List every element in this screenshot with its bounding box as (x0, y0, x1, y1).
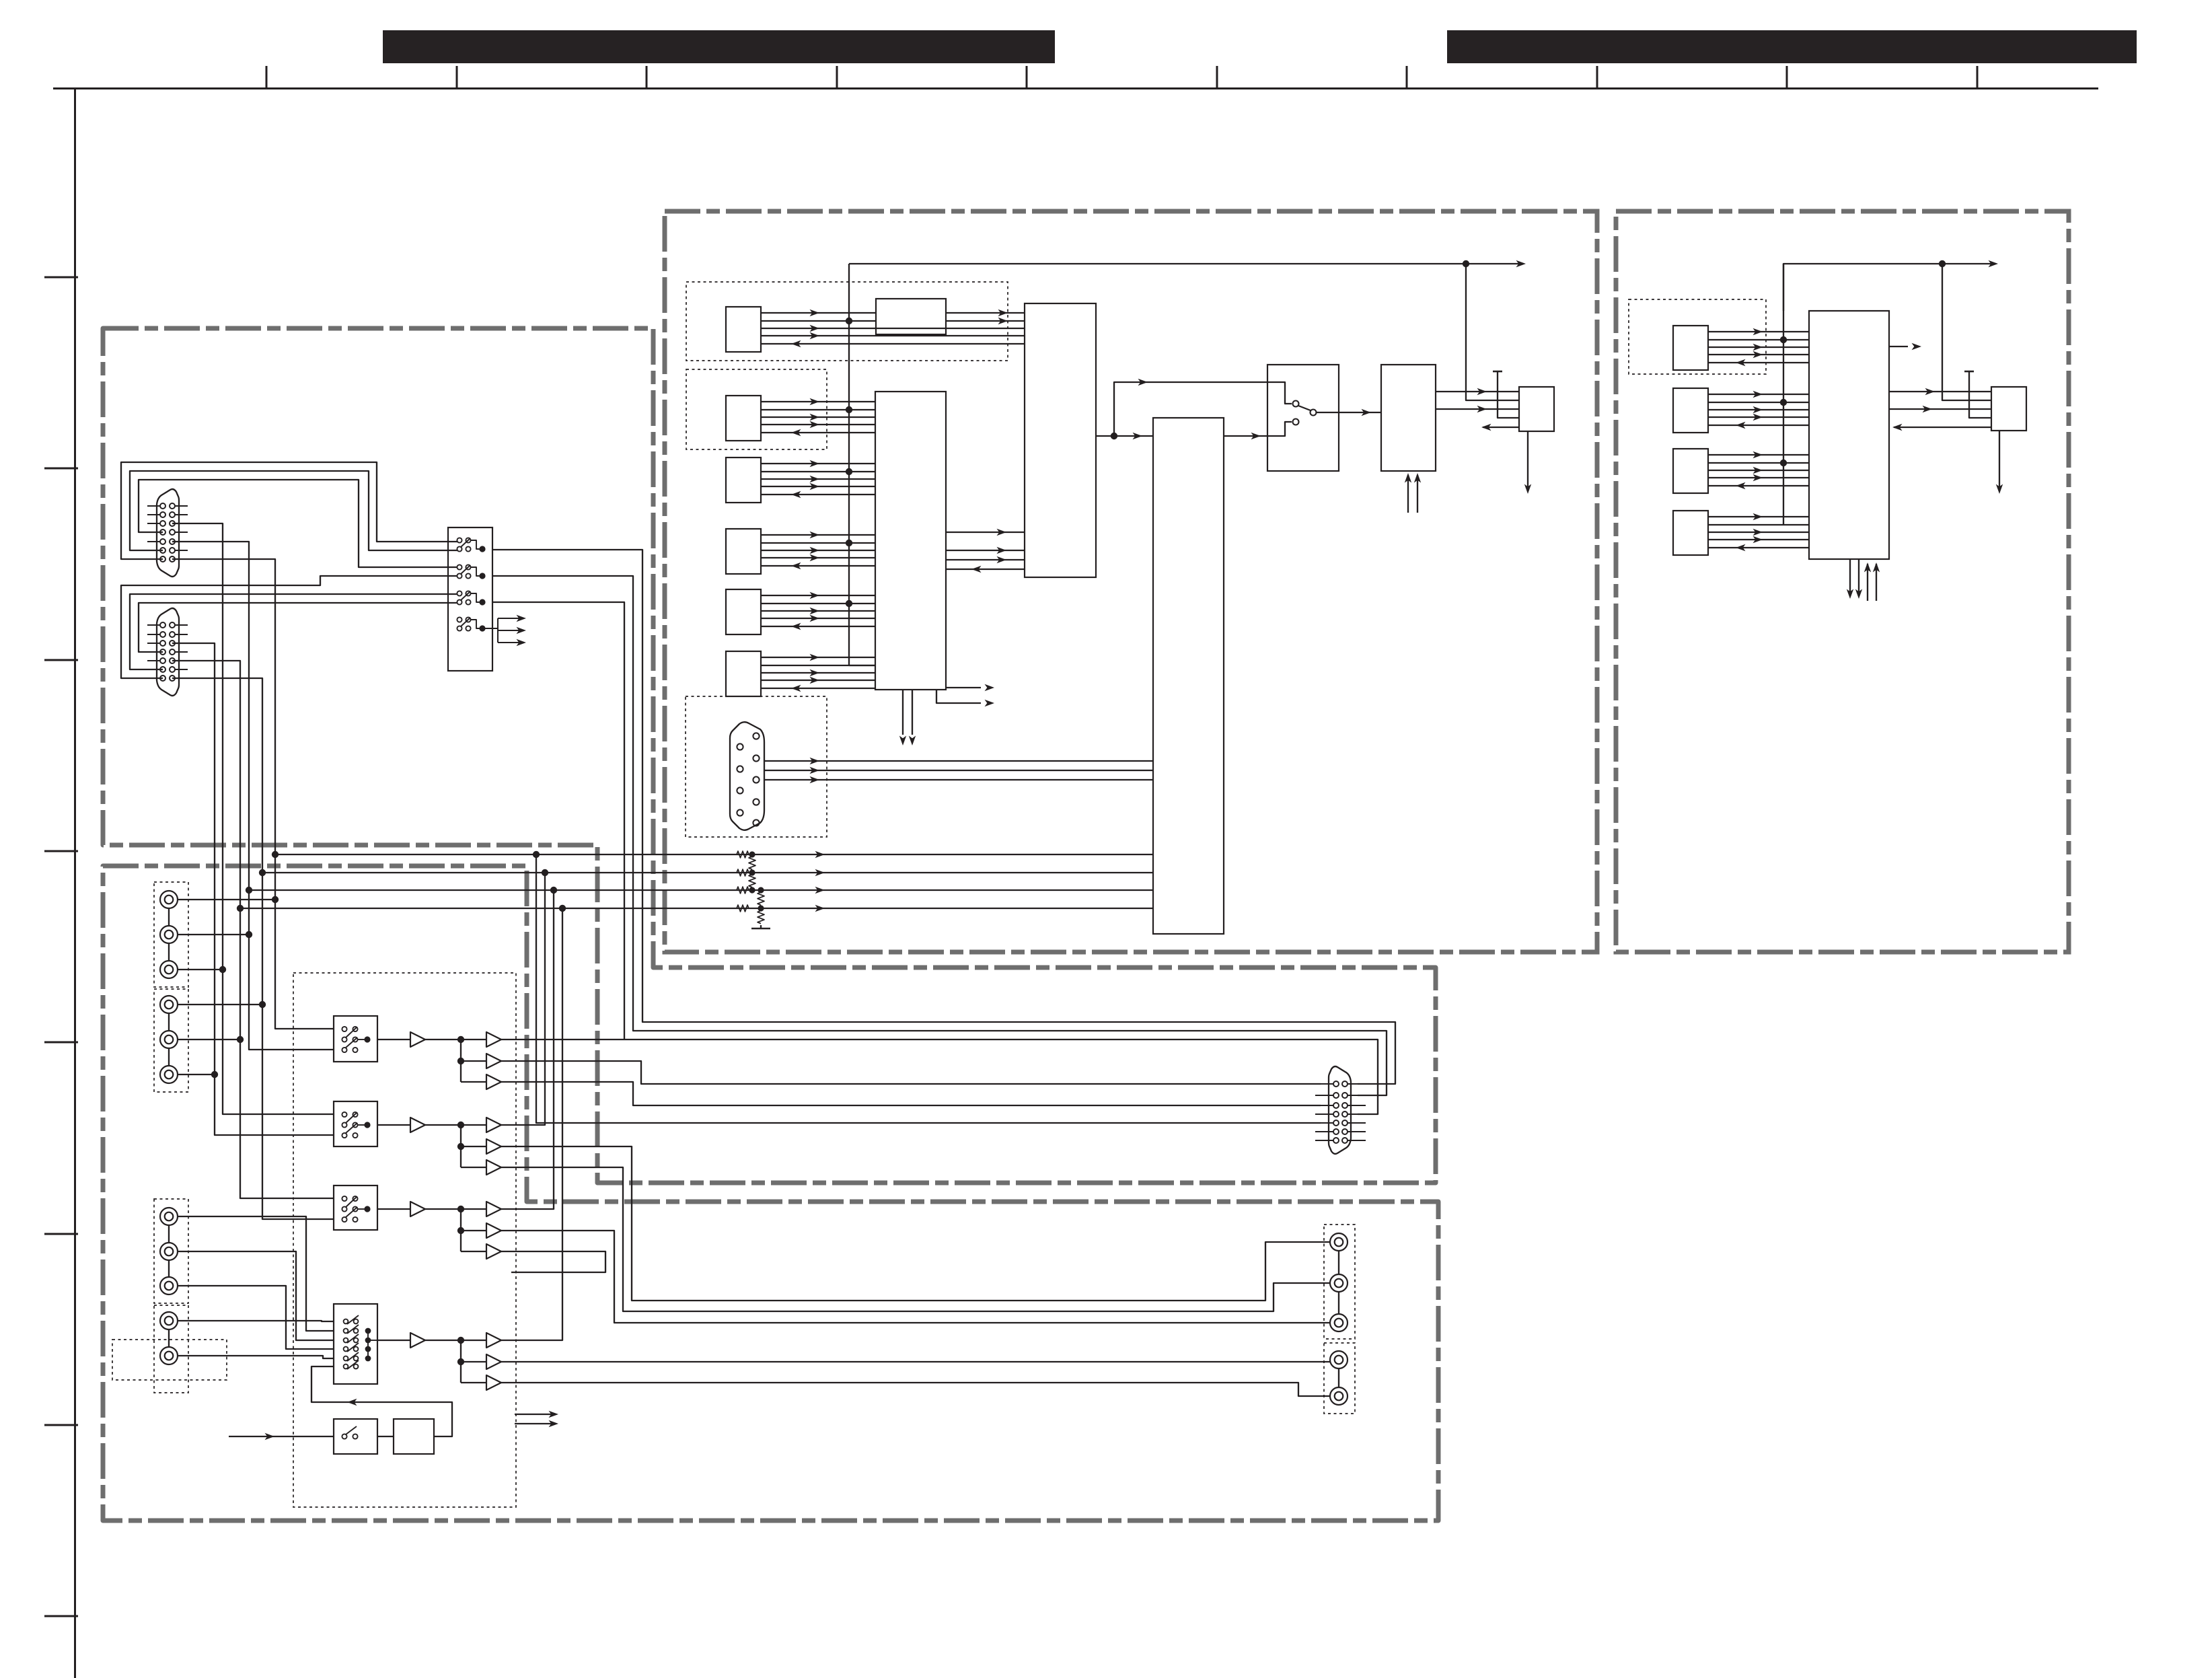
wire: CN1 pin5R down (172, 542, 334, 1050)
connector CN2 body (157, 608, 179, 696)
RCA jack J1 (160, 891, 178, 908)
switch S2 unit 3 (457, 591, 462, 595)
switch S2 unit 2 (457, 564, 462, 569)
switch S5 contacts (342, 1196, 346, 1201)
wire: S2 out1 to CN3 (492, 550, 1395, 1084)
wire: S3 out2 to CN3 pin1 (501, 1061, 1321, 1084)
left ruler line (74, 89, 76, 1678)
dotted group: switch/buffer block (293, 973, 516, 1507)
wire: U4 to J-A lower (1436, 408, 1519, 410)
RCA jack J2 (160, 926, 178, 943)
top ruler line (53, 87, 2098, 89)
input module box B4 (1673, 511, 1708, 555)
input module box A5 (726, 589, 761, 634)
ground (751, 928, 770, 930)
RCA jack JO4 (1330, 1351, 1348, 1369)
block frame: audio in/out section (dash-dot) (103, 866, 1438, 1521)
switch S2 unit 1 (457, 538, 462, 542)
wire: J5 feed (178, 1039, 240, 1040)
switch box S5 (334, 1185, 377, 1230)
switch S4 contacts (342, 1112, 346, 1117)
jack chain 3 (168, 1225, 170, 1243)
wires: input B1 to U5 (1708, 328, 1809, 366)
dotted group: output jacks 4-5 (1324, 1343, 1355, 1414)
dotted group: control connector (686, 696, 827, 837)
wire: S5 out3 (501, 1251, 605, 1272)
title bar (redacted) right (1447, 30, 2137, 63)
wire: S5 out1 up to rail3 (501, 890, 554, 1209)
wire: CN1 pin3R down (172, 523, 334, 1114)
wire: J11 to S6 (178, 1356, 334, 1358)
wire: mute feedback (311, 1366, 452, 1436)
switch S7 contacts (342, 1434, 346, 1438)
dotted group: input block 2 (686, 369, 827, 449)
wire: U1 to U3 composite (1096, 435, 1153, 437)
wire: CN2 pin6L (130, 594, 457, 669)
wire: S7 to mute (377, 1436, 394, 1437)
connector CN1 pins (160, 503, 165, 509)
resistor R3 (737, 887, 749, 893)
wire: S7 input (229, 1436, 334, 1437)
buffers after S6 (377, 1333, 501, 1390)
wire: CN2 pin7L loop (121, 576, 457, 678)
input module box B1 (1673, 326, 1708, 370)
input module box A6 (726, 651, 761, 696)
IC U2 (selector) (875, 392, 946, 690)
wire: bus to U2 (849, 665, 875, 666)
wires: input B4 to U5 (1708, 513, 1809, 551)
wire: J6 feed (178, 1074, 215, 1075)
connector CN1 body (157, 489, 179, 577)
switch S3 contacts (342, 1027, 346, 1031)
IC U3 (video encoder) (1153, 418, 1224, 934)
wire: J3 feed (178, 969, 223, 970)
RCA jack JO3 (1330, 1314, 1348, 1332)
wire: U3 out to S1 (1224, 422, 1292, 436)
wire: J-A down (1527, 431, 1528, 488)
wire: S4 out2 to JO1 (501, 1146, 1330, 1301)
wire: video rail 2 (262, 872, 1153, 873)
RCA jack J9 (160, 1277, 178, 1294)
wires: input B2 to U5 (1708, 391, 1809, 429)
connector CN-D9 body (730, 722, 764, 830)
connector CN3 stubs (1315, 1083, 1333, 1085)
jack chain 2 (168, 1013, 170, 1031)
wire: S3 out3 to CN3 pin3 (501, 1082, 1321, 1105)
connector CN1 stubs (147, 505, 160, 507)
wire: S4 out1 up to rail2 (501, 873, 545, 1125)
wire: feedback from top rail (1466, 264, 1519, 400)
wire: J-B return (1894, 427, 1991, 428)
dotted group: output jacks 1-3 (1324, 1225, 1355, 1339)
wire: CN1 pin7R down (172, 559, 334, 1029)
wire: J1 feed (178, 899, 275, 900)
IC U5 (1809, 311, 1889, 559)
block frame: main processing section (dash-dot) (665, 211, 1597, 952)
dotted group: jacks 4-6 (154, 989, 188, 1092)
wire: U5 status out (1889, 346, 1908, 347)
junction dots: rail branches (533, 851, 566, 912)
IC U1 (receiver) (1025, 303, 1096, 577)
wires: S2 unit4 outputs (482, 615, 526, 646)
buffers after S3 (377, 1032, 501, 1089)
dotted group: jacks 10-11 (154, 1305, 188, 1393)
IC U4 (driver) (1381, 365, 1436, 471)
wires: U2 outputs down (899, 690, 916, 745)
terminator T1 (1493, 371, 1502, 373)
connector CN-D9 pins (737, 733, 759, 826)
wire: J2 feed (178, 934, 249, 935)
input module box A2 (726, 396, 761, 441)
wires: U2 to U1 (946, 529, 1025, 573)
buffers after S5 (377, 1202, 501, 1259)
wire: video rail 3 (249, 889, 1153, 891)
wire: CN2 pin3R down (172, 643, 334, 1135)
wire: J4 feed (178, 1004, 262, 1005)
switch S6 contacts (344, 1315, 377, 1369)
wire: J-A return (1483, 427, 1519, 428)
block frame: video input/monitor section (dash-dot) (103, 328, 1436, 1183)
wire: S6 out1 up to rail4 (501, 908, 562, 1340)
switch unit box S1 (1267, 365, 1339, 471)
jack chain 4 (168, 1329, 170, 1347)
RCA jack J3 (160, 961, 178, 978)
wire: J-B down (1999, 431, 2000, 488)
wire: CN2 pin4L (139, 603, 457, 652)
wire: CN2 pin7R down (172, 678, 334, 1219)
wire: U5 to J-B lower (1889, 408, 1991, 410)
switch S2 unit 4 (457, 617, 462, 622)
switch box S7 (334, 1419, 377, 1454)
wire: U5 to J-B upper (1889, 391, 1991, 392)
dotted group: input block B1 (1629, 299, 1766, 374)
wire: rail1 branch to CN3 pin5 (536, 854, 1321, 1123)
connector CN2 pins (160, 622, 165, 628)
top ruler ticks (266, 66, 1977, 89)
wire: J7 to S6 (178, 1216, 334, 1331)
mute block (394, 1419, 434, 1454)
block frame: secondary processing section (dash-dot) (1616, 211, 2069, 952)
wires: U4 control up-arrows (1407, 475, 1409, 513)
wires: input A3 to U2 (761, 460, 875, 498)
connector CN3 body (1329, 1066, 1351, 1154)
jack chain 5 (1338, 1251, 1339, 1274)
resistor chain RA (749, 856, 755, 869)
wires: input A2 to U2 (761, 398, 875, 436)
switch box S4 (334, 1101, 377, 1146)
wire: rec out arrows (515, 1414, 553, 1415)
resistor R4 (737, 905, 749, 912)
wires: U5 bottom arrows (1847, 559, 1880, 601)
wire: video rail 1 (275, 854, 1153, 855)
wire: S4 out3 to JO2 (501, 1167, 1330, 1311)
dotted group: input block 1 (686, 282, 1008, 361)
RCA jack JO1 (1330, 1233, 1348, 1251)
wire: S6 out3 to JO5 (501, 1383, 1330, 1396)
input module box B2 (1673, 388, 1708, 433)
RCA jack JO2 (1330, 1274, 1348, 1292)
connector CN3 pins (1333, 1081, 1339, 1087)
wire: S1 to U4 (1317, 412, 1381, 413)
input module box A3 (726, 458, 761, 503)
switch box S6 (334, 1304, 377, 1384)
switch S1 contacts (1293, 401, 1299, 407)
dotted group: option slot (112, 1340, 227, 1380)
wire: S6 out2 to JO4 (501, 1361, 1330, 1362)
wire: U4 to J-A upper (1436, 391, 1519, 392)
wires: input A5 to U2 (761, 592, 875, 630)
interface box J-B (1991, 387, 2026, 431)
switch block S2 box (448, 527, 492, 671)
RCA jack JO5 (1330, 1387, 1348, 1405)
wire: S5 out2 to JO3 (501, 1231, 1330, 1323)
wire: S2 out2 to CN3 (492, 576, 1387, 1095)
input module box A4 (726, 529, 761, 574)
input module box B3 (1673, 449, 1708, 493)
RCA jack J7 (160, 1208, 178, 1225)
wires: input B3 to U5 (1708, 451, 1809, 489)
buffers after S4 (377, 1118, 501, 1175)
RCA jack J8 (160, 1243, 178, 1260)
dotted group: jacks 7-9 (154, 1199, 188, 1303)
RCA jack J11 (160, 1347, 178, 1364)
left ruler ticks (44, 277, 78, 1616)
wire: CN1 pin4L loop (139, 480, 457, 567)
wire: J10 to S6 (178, 1321, 334, 1321)
wires: CN-D9 to U3 (764, 758, 1153, 783)
RCA jack J10 (160, 1312, 178, 1329)
wires: input A6 to U2 (761, 654, 875, 692)
terminator T2 (1964, 371, 1974, 373)
dotted group: jacks 1-3 (154, 882, 188, 987)
resistor R1 (737, 851, 749, 858)
RCA jack J4 (160, 996, 178, 1013)
interface box J-A (1519, 387, 1554, 431)
jack chain 1 (168, 908, 170, 926)
delay block (876, 299, 946, 334)
wire: J9 to S6 (178, 1286, 334, 1349)
wires: delay to U1 (946, 309, 1025, 324)
wire: video rail 4 (240, 908, 1153, 909)
connector CN2 stubs (147, 624, 160, 626)
wire: CN2 pin5R down (172, 661, 334, 1198)
wire: top rail box B (1783, 264, 1993, 311)
switch box S3 (334, 1016, 377, 1062)
wire: CN1 pin7L loop (121, 462, 457, 559)
wire: bypass rail (1114, 382, 1292, 436)
wires: input A4 to U2 (761, 532, 875, 569)
wires: U2 outputs east (936, 684, 994, 706)
wires: input A1 to delay/U1 (761, 309, 1025, 347)
wire: CN1 pin6L loop (130, 471, 457, 550)
RCA jack J5 (160, 1031, 178, 1048)
wire: vertical bus box A (848, 264, 850, 666)
wire: S2 out3 to CN3 (492, 602, 1378, 1114)
jack chain 6 (1338, 1369, 1339, 1387)
wire: feedback box B (1942, 264, 1991, 400)
resistor chain RB (758, 892, 764, 905)
resistor R2 (737, 869, 749, 876)
wire: J8 to S6 (178, 1251, 334, 1340)
wire: top rail box A (849, 263, 1522, 264)
wire: vertical bus box B (1783, 264, 1784, 525)
RCA jack J6 (160, 1066, 178, 1083)
input module box A1 (726, 307, 761, 352)
title bar (redacted) left (383, 30, 1055, 63)
